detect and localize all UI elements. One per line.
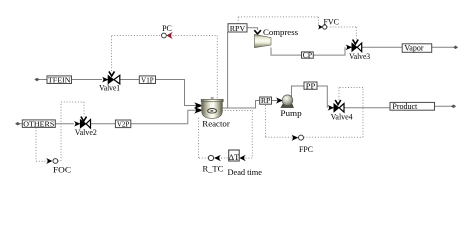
wire RP to pump bbox=[272, 100, 278, 102]
wire OTHERS feed line bbox=[19, 110, 196, 124]
svg-text:Valve4: Valve4 bbox=[331, 113, 353, 122]
wire dotted R_TC to reactor bottom bbox=[199, 117, 209, 158]
label box Vapor bbox=[402, 44, 432, 53]
node sink diamond Product bbox=[451, 105, 456, 108]
svg-text:TFEIN: TFEIN bbox=[48, 75, 71, 84]
pump P1 bbox=[280, 95, 301, 118]
valve Valve2 bbox=[74, 117, 97, 137]
svg-text:FVC: FVC bbox=[324, 17, 340, 26]
wire Product to vent diamond bbox=[435, 105, 453, 107]
controller PC bbox=[162, 24, 173, 39]
controller FOC bbox=[46, 158, 71, 175]
label box Product bbox=[390, 102, 435, 111]
wire valve3 to Vapor bbox=[362, 46, 403, 48]
svg-text:RP: RP bbox=[261, 98, 271, 105]
wire dotted FPC to valve4 bbox=[304, 88, 363, 138]
compressor C1 bbox=[255, 28, 299, 48]
wire dotted dead time to R_TC bbox=[221, 157, 229, 159]
node sink diamond Vapor bbox=[453, 46, 458, 49]
valve Valve4 bbox=[328, 100, 353, 122]
node source diamond OTHERS bbox=[15, 122, 20, 125]
svg-text:FPC: FPC bbox=[299, 145, 313, 154]
valve Valve1 bbox=[99, 71, 120, 92]
svg-text:FOC: FOC bbox=[53, 166, 71, 175]
label box RP bbox=[260, 97, 272, 105]
svg-text:Vapor: Vapor bbox=[404, 44, 423, 53]
label box OTHERS bbox=[22, 119, 55, 128]
wire dotted OTHERS tap to FOC bbox=[36, 128, 46, 162]
wire reactor to RPV bbox=[227, 32, 229, 108]
svg-text:Pump: Pump bbox=[280, 109, 301, 118]
wire valve4 to Product bbox=[344, 107, 390, 109]
svg-text:CP: CP bbox=[303, 52, 313, 59]
svg-text:V2P: V2P bbox=[117, 119, 130, 128]
svg-text:PC: PC bbox=[162, 24, 172, 33]
label box V2P bbox=[115, 119, 130, 128]
wire dotted FVC to valve3 bbox=[327, 27, 356, 39]
label box TFEIN bbox=[47, 75, 72, 84]
controller FVC bbox=[318, 17, 339, 29]
label box CP bbox=[302, 52, 314, 60]
label box V1P bbox=[139, 75, 155, 84]
valve Valve3 bbox=[346, 40, 371, 61]
svg-text:V1P: V1P bbox=[141, 75, 154, 84]
wire Vapor to vent diamond bbox=[432, 46, 453, 48]
dead time block bbox=[228, 150, 263, 177]
wire dotted PC loop: valve1 to PC to reactor top bbox=[112, 36, 218, 99]
label box RPV bbox=[228, 24, 247, 33]
svg-text:Compress: Compress bbox=[263, 28, 298, 37]
wire dotted FOC to valve2 bbox=[58, 102, 84, 161]
controller FPC bbox=[292, 135, 314, 154]
svg-text:Valve2: Valve2 bbox=[75, 128, 97, 137]
wire TFEIN feed line bbox=[39, 80, 196, 106]
compressor inlet arrow bbox=[254, 30, 261, 34]
wire dotted reactor outlet tap to dead time bbox=[222, 111, 252, 159]
node source diamond TFEIN bbox=[35, 78, 40, 81]
svg-text:Valve3: Valve3 bbox=[349, 52, 370, 61]
svg-text:Product: Product bbox=[392, 102, 418, 111]
wire reactor outlet to RP bbox=[222, 101, 260, 109]
pump inlet arrow bbox=[276, 97, 283, 103]
svg-text:Dead time: Dead time bbox=[228, 168, 263, 177]
label box PP bbox=[304, 82, 317, 90]
svg-text:Valve1: Valve1 bbox=[99, 83, 120, 92]
svg-text:Reactor: Reactor bbox=[202, 120, 230, 129]
reactor R1 bbox=[201, 97, 230, 128]
wire dotted RPV to FVC bbox=[238, 17, 318, 24]
svg-text:OTHERS: OTHERS bbox=[23, 119, 54, 128]
svg-text:PP: PP bbox=[306, 83, 316, 90]
wire dotted RP tap to FPC bbox=[266, 105, 292, 137]
wire compressor to CP to valve3 bbox=[271, 47, 345, 55]
reactor feed arrows bbox=[194, 102, 203, 113]
svg-text:R_TC: R_TC bbox=[203, 164, 224, 173]
svg-text:ΔT: ΔT bbox=[229, 152, 240, 162]
wire pump to PP to valve4 bbox=[292, 86, 328, 108]
controller R_TC bbox=[203, 155, 224, 174]
svg-text:RPV: RPV bbox=[230, 24, 246, 33]
wire RPV to compressor inlet bbox=[247, 28, 258, 30]
